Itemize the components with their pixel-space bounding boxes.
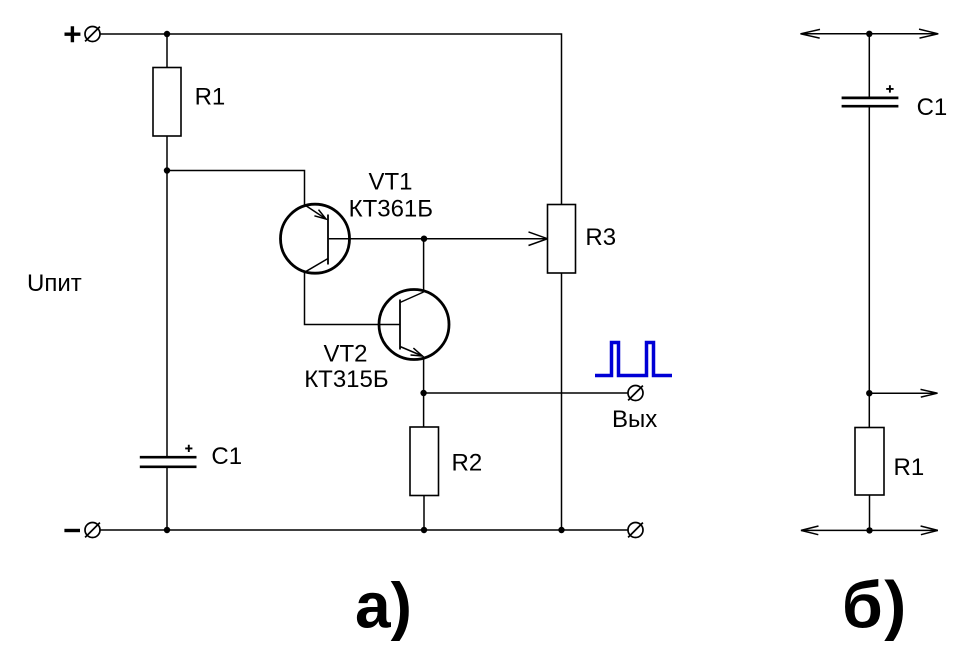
svg-text:КТ315Б: КТ315Б <box>304 366 388 393</box>
arrow right end top <box>919 29 938 38</box>
wire C1 bottom lead <box>166 467 168 530</box>
node junction R1/VT1 <box>164 167 170 173</box>
node junction middle (b) <box>866 390 872 396</box>
plus of C1 (b) <box>886 85 893 92</box>
capacitor C1 (left, polarized) <box>140 457 197 467</box>
arrow middle (b) <box>921 389 938 397</box>
svg-text:R1: R1 <box>894 454 925 481</box>
wire to output terminal <box>424 392 628 394</box>
arrow right end bottom (b) <box>921 526 938 535</box>
node junction R2/rail <box>421 527 427 533</box>
wire R1 bottom lead <box>166 136 168 170</box>
resistor R1 <box>153 68 181 137</box>
wire VT1 base to R3 with arrow <box>329 238 548 240</box>
plus of C1 <box>185 445 192 452</box>
wire top rail to R3 <box>100 34 562 205</box>
wire top line of divider (b) with arrows both ends <box>801 33 939 35</box>
resistor R3 (with wiper) <box>548 205 576 274</box>
svg-text:б): б) <box>842 568 908 642</box>
svg-text:R1: R1 <box>195 84 226 111</box>
terminal output (circle with slash) <box>628 386 643 401</box>
wire bottom line of divider (b) with arrows both ends <box>801 529 938 531</box>
svg-text:C1: C1 <box>211 443 242 470</box>
plus polarity sign of supply <box>65 26 81 42</box>
svg-text:C1: C1 <box>917 94 948 121</box>
svg-text:VT1: VT1 <box>369 169 413 196</box>
transistor VT2 (NPN KT315B) <box>379 290 449 360</box>
node junction R3/rail <box>558 527 564 533</box>
wire VT2 collector up <box>423 239 425 292</box>
wire C1 top lead (b) <box>868 34 870 98</box>
resistor R2 <box>410 427 439 496</box>
svg-text:КТ361Б: КТ361Б <box>349 195 433 222</box>
minus polarity sign of supply <box>64 529 80 532</box>
wire node to R2 <box>423 393 425 427</box>
arrow into R3 wiper <box>529 232 548 246</box>
wire VT1 collector down to VT2 base <box>305 272 401 324</box>
wire R1 top lead <box>166 34 168 68</box>
svg-text:Uпит: Uпит <box>27 270 82 297</box>
svg-text:а): а) <box>355 569 412 641</box>
wire C1 bottom to node (b) <box>868 106 870 393</box>
wire node to VT1 emitter <box>167 171 305 205</box>
terminal + (circle with slash) <box>85 27 100 42</box>
resistor R1 (b) <box>855 428 884 496</box>
node junction bottom (b) <box>866 527 872 533</box>
svg-text:R3: R3 <box>585 224 616 251</box>
svg-text:R2: R2 <box>452 450 483 477</box>
node junction C1/rail <box>164 527 170 533</box>
wire R2 bottom lead <box>423 496 425 531</box>
terminal - (circle with slash) <box>85 523 100 538</box>
wire left rail down to C1 <box>166 170 168 457</box>
wire bottom rail <box>100 529 628 531</box>
wire VT2 emitter down <box>423 357 425 394</box>
wire middle output arrow (b) <box>869 392 937 394</box>
node junction top (b) <box>866 31 872 37</box>
capacitor C1 (b, polarized) <box>842 98 899 106</box>
wire R1 top lead (b) <box>868 393 870 427</box>
wire R1 bottom lead (b) <box>869 495 871 530</box>
terminal bottom output (circle with slash) <box>628 523 643 538</box>
node junction VT1 base / VT2 collector <box>421 236 427 242</box>
arrow left end bottom (b) <box>801 526 819 535</box>
node junction top R1 <box>164 31 170 37</box>
arrow left end top <box>801 29 821 38</box>
transistor VT1 (PNP KT361B) <box>281 204 350 273</box>
output pulse waveform <box>595 343 672 376</box>
node junction output <box>420 390 426 396</box>
svg-text:VT2: VT2 <box>324 340 368 367</box>
wire R3 bottom lead <box>561 273 563 530</box>
svg-text:Вых: Вых <box>612 406 657 433</box>
